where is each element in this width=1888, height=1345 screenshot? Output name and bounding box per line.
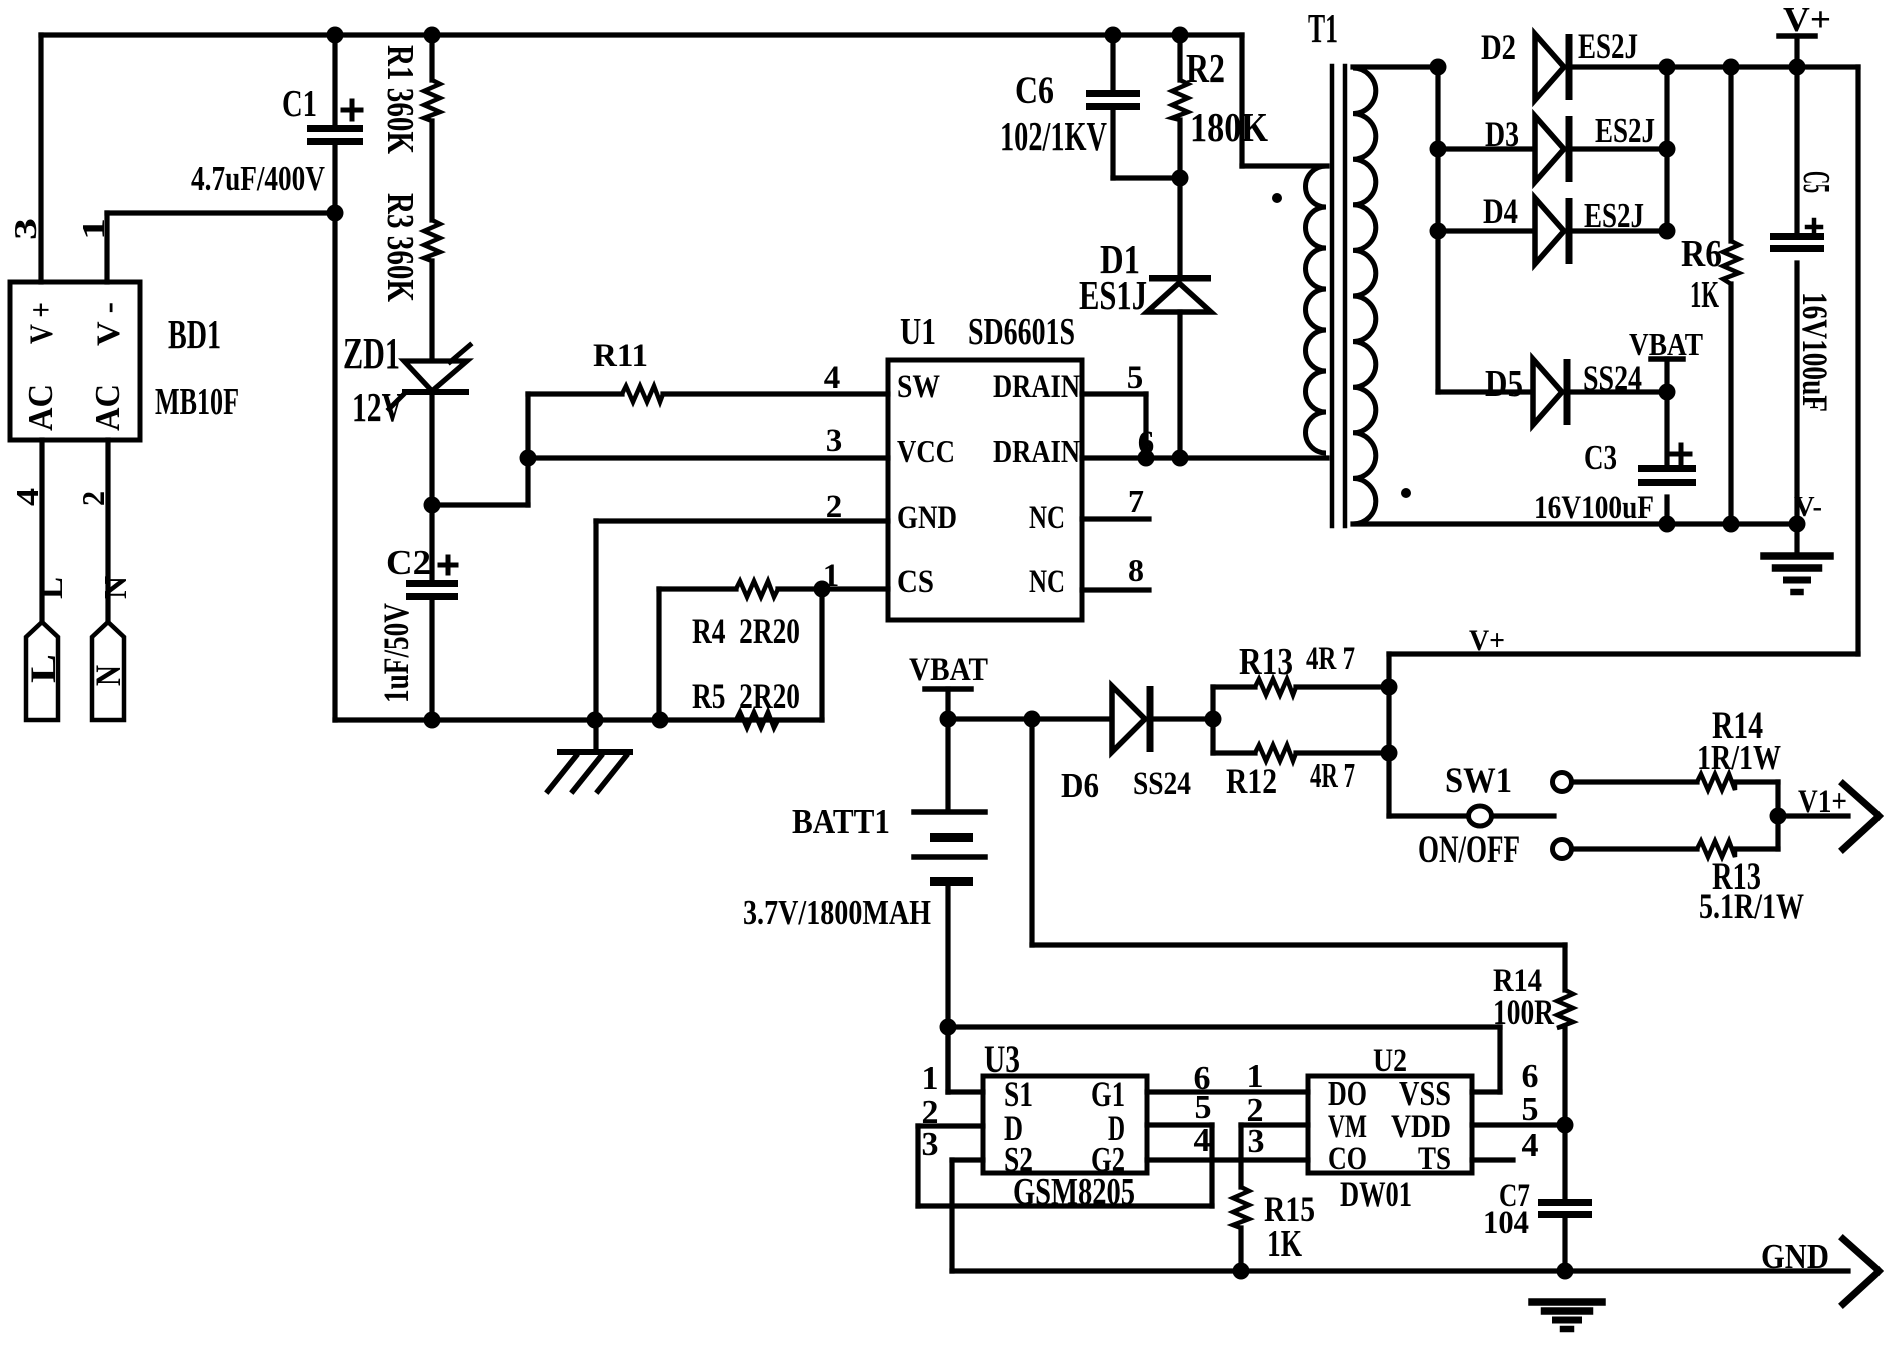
svg-text:GND: GND	[897, 500, 957, 536]
svg-text:BD1: BD1	[168, 311, 221, 357]
svg-text:N: N	[88, 665, 128, 686]
svg-text:R6: R6	[1681, 233, 1722, 275]
svg-text:R11: R11	[593, 338, 648, 374]
svg-text:L: L	[33, 577, 69, 599]
svg-text:R4 2R20: R4 2R20	[692, 611, 800, 651]
svg-text:V-: V-	[1794, 491, 1822, 523]
svg-text:ES2J: ES2J	[1578, 26, 1638, 66]
svg-text:DW01: DW01	[1340, 1174, 1412, 1214]
svg-text:3: 3	[826, 423, 843, 459]
svg-text:V1+: V1+	[1798, 784, 1847, 820]
svg-text:N: N	[97, 576, 133, 599]
svg-text:V+: V+	[1783, 0, 1831, 39]
svg-text:VSS: VSS	[1399, 1074, 1451, 1113]
svg-text:4: 4	[1522, 1127, 1539, 1164]
svg-text:1K: 1K	[1267, 1223, 1302, 1265]
svg-text:104: 104	[1483, 1205, 1529, 1241]
svg-text:ES2J: ES2J	[1584, 196, 1644, 235]
svg-text:NC: NC	[1029, 564, 1065, 600]
svg-text:1K: 1K	[1690, 274, 1719, 316]
svg-text:ON/OFF: ON/OFF	[1418, 828, 1520, 871]
svg-text:V+: V+	[1469, 624, 1505, 657]
svg-text:MB10F: MB10F	[155, 381, 239, 423]
svg-text:1: 1	[823, 558, 840, 594]
svg-text:BATT1: BATT1	[792, 802, 890, 841]
svg-text:SW1: SW1	[1445, 760, 1512, 800]
svg-text:R5 2R20: R5 2R20	[692, 676, 800, 716]
svg-text:5: 5	[1522, 1091, 1539, 1128]
svg-text:ES1J: ES1J	[1079, 272, 1147, 318]
svg-text:SS24: SS24	[1133, 766, 1191, 802]
svg-text:CS: CS	[897, 564, 934, 600]
svg-text:DO: DO	[1328, 1074, 1367, 1113]
svg-text:4: 4	[1194, 1122, 1211, 1159]
svg-text:R1 360K: R1 360K	[379, 45, 421, 154]
svg-text:12V: 12V	[352, 384, 403, 430]
svg-text:4: 4	[9, 488, 45, 506]
svg-text:7: 7	[1128, 483, 1144, 519]
svg-text:1: 1	[75, 218, 111, 240]
svg-text:V +: V +	[24, 302, 60, 344]
svg-text:VCC: VCC	[897, 433, 955, 469]
svg-text:6: 6	[1522, 1058, 1539, 1095]
svg-text:D6: D6	[1061, 766, 1099, 805]
svg-text:D5: D5	[1485, 363, 1523, 405]
svg-text:R12: R12	[1226, 761, 1277, 801]
svg-text:R2: R2	[1186, 45, 1225, 91]
svg-text:VM: VM	[1328, 1109, 1367, 1145]
svg-text:2: 2	[826, 489, 843, 525]
svg-text:16V100uF: 16V100uF	[1534, 490, 1654, 526]
svg-text:C6: C6	[1015, 69, 1054, 112]
svg-text:100R: 100R	[1493, 992, 1555, 1032]
svg-text:6: 6	[1138, 425, 1155, 461]
svg-text:SW: SW	[897, 369, 940, 405]
svg-text:CO: CO	[1328, 1141, 1367, 1177]
svg-text:SS24: SS24	[1583, 358, 1642, 398]
svg-text:VBAT: VBAT	[909, 652, 988, 688]
svg-text:ZD1: ZD1	[343, 329, 400, 378]
svg-text:DRAIN: DRAIN	[993, 433, 1080, 469]
svg-text:S2: S2	[1004, 1140, 1033, 1179]
svg-text:AC: AC	[21, 384, 60, 431]
svg-text:1uF/50V: 1uF/50V	[376, 603, 416, 703]
svg-text:AC: AC	[88, 384, 127, 431]
svg-text:4: 4	[824, 360, 841, 396]
svg-text:R3 360K: R3 360K	[379, 193, 421, 302]
svg-text:1R/1W: 1R/1W	[1697, 738, 1781, 777]
svg-text:C2: C2	[386, 543, 431, 582]
svg-text:4R 7: 4R 7	[1306, 641, 1355, 677]
svg-text:3: 3	[7, 218, 43, 240]
svg-text:C5: C5	[1795, 171, 1837, 193]
svg-text:102/1KV: 102/1KV	[1000, 113, 1107, 159]
svg-text:D3: D3	[1485, 114, 1519, 154]
svg-text:GND: GND	[1761, 1237, 1829, 1276]
svg-text:5: 5	[1195, 1089, 1212, 1126]
svg-text:1: 1	[922, 1060, 939, 1097]
svg-text:1: 1	[1247, 1058, 1264, 1095]
svg-text:VBAT: VBAT	[1629, 326, 1703, 362]
svg-text:SD6601S: SD6601S	[968, 311, 1075, 353]
svg-text:G2: G2	[1091, 1140, 1125, 1179]
svg-text:4.7uF/400V: 4.7uF/400V	[191, 159, 325, 198]
svg-text:VDD: VDD	[1391, 1109, 1451, 1145]
svg-text:D4: D4	[1483, 191, 1518, 231]
svg-text:NC: NC	[1029, 500, 1065, 536]
svg-text:5.1R/1W: 5.1R/1W	[1699, 886, 1804, 926]
svg-text:4R 7: 4R 7	[1310, 756, 1355, 795]
svg-text:DRAIN: DRAIN	[993, 369, 1080, 405]
svg-text:5: 5	[1127, 360, 1144, 396]
svg-text:T1: T1	[1308, 5, 1338, 51]
svg-text:D2: D2	[1481, 27, 1516, 67]
svg-text:3: 3	[1248, 1123, 1265, 1160]
svg-text:16V100uF: 16V100uF	[1795, 292, 1835, 412]
svg-text:U1: U1	[900, 311, 936, 353]
svg-text:C3: C3	[1584, 438, 1617, 477]
svg-text:3.7V/1800MAH: 3.7V/1800MAH	[743, 893, 931, 932]
svg-text:180K: 180K	[1190, 104, 1268, 150]
svg-text:ES2J: ES2J	[1595, 111, 1655, 150]
svg-text:2: 2	[75, 491, 111, 506]
svg-text:8: 8	[1128, 552, 1144, 588]
svg-text:L: L	[23, 654, 63, 683]
svg-text:3: 3	[922, 1126, 939, 1163]
svg-text:C1: C1	[282, 83, 317, 125]
svg-text:R13: R13	[1239, 641, 1293, 683]
svg-text:V -: V -	[91, 302, 127, 346]
svg-text:TS: TS	[1418, 1141, 1451, 1177]
